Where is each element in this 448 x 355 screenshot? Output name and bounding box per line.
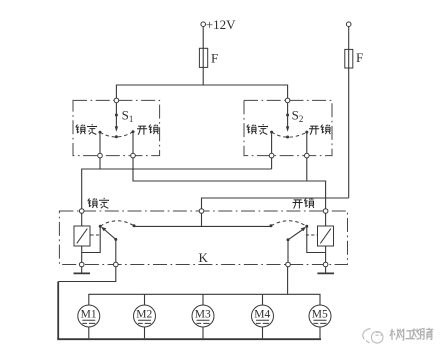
relay K1 moving arm with arrow (105, 230, 116, 239)
node K top terminal unlock coil (323, 209, 328, 214)
contact dot unlock (S1) (132, 130, 135, 133)
svg-text:M2: M2 (136, 309, 152, 321)
wire S2 unlock contact down (306, 134, 308, 154)
motor M2 (134, 305, 156, 338)
wire unlock-side motor feed to top bus (287, 267, 289, 295)
svg-text:S1: S1 (122, 108, 134, 125)
node S2 bottom terminal right (305, 153, 310, 158)
relay K2 travel arc (dashed) (271, 221, 307, 227)
mechanical link K1 (dashed) (91, 234, 102, 236)
node S1 bottom terminal left (98, 153, 103, 158)
wire K2 pole to coil return (307, 227, 326, 253)
wire S1 unlock contact down (132, 133, 134, 153)
switch S1 actuator arrow (115, 116, 117, 127)
label unlock (S1) (137, 125, 158, 135)
label lock (S1) (76, 124, 97, 135)
wire line A: S1 lock + S2 lock contacts to lock relay coil (82, 158, 272, 209)
wire M2 top stub (144, 294, 146, 305)
motor M3 (192, 305, 214, 338)
svg-text:F: F (356, 50, 363, 65)
wire top motor bus (89, 294, 320, 305)
relay K2 fixed contact dot (270, 224, 273, 227)
relay K1 coil (lock) (81, 213, 83, 226)
relay box K (dash-dot border) (59, 211, 347, 265)
wire K1 arm to bottom terminal (115, 240, 117, 262)
relay K2 moving arm with arrow (288, 230, 302, 240)
ground (right coil) (325, 267, 327, 273)
node K top terminal lock coil (79, 209, 84, 214)
wire relay contact bus (134, 225, 271, 227)
motor M1 (78, 305, 100, 338)
wire supply rail to switch boxes (116, 85, 287, 100)
wire S2 terminal to pivot (287, 103, 289, 114)
ground (left coil) (81, 267, 83, 273)
wire S2 lock contact down (271, 134, 273, 154)
svg-text:+12V: +12V (206, 17, 236, 32)
relay K2 coil (unlock) (325, 213, 327, 226)
contact dot lock (S2) (270, 131, 273, 134)
wire M4 top stub (262, 294, 264, 305)
node S2 top terminal (285, 98, 290, 103)
watermark text (ji gong jiao yu) (390, 328, 433, 340)
wire contact bus terminal down (201, 213, 203, 226)
svg-text:K: K (199, 250, 209, 265)
switch S1 common dot (115, 135, 118, 138)
node K bottom terminal arm1 (114, 262, 119, 267)
node battery terminal 2 (346, 22, 351, 27)
switch box S2 (dash-dot border) (244, 100, 332, 155)
wire K1 pole to coil return (82, 227, 101, 253)
contact dot lock (S1) (99, 131, 102, 134)
wire line C: fuse F2 to relay contact bus terminal (202, 198, 349, 209)
wire fuse F1 to supply rail (202, 67, 204, 85)
svg-text:M5: M5 (312, 309, 328, 321)
wire line B: S1 unlock + S2 unlock contacts to unlock relay coil (133, 158, 326, 209)
node K top terminal contact bus (199, 209, 204, 214)
switch S2 travel arc (dashed) (272, 132, 307, 137)
fuse F2 (345, 49, 353, 68)
wire S1 terminal to pivot (115, 103, 117, 114)
svg-text:M4: M4 (254, 309, 270, 321)
wire fuse F2 down to line C (348, 68, 350, 198)
relay K1 travel arc (dashed) (100, 221, 134, 226)
node K bottom terminal arm2 (286, 262, 291, 267)
label unlock (relay input) (293, 198, 314, 208)
switch S1 pivot dot (115, 114, 118, 117)
label lock (relay input) (88, 198, 109, 209)
node S1 top terminal (114, 98, 119, 103)
label lock (S2) (247, 124, 268, 135)
svg-text:F: F (211, 51, 218, 66)
wire lock-side motor feed (left) (58, 267, 116, 282)
wire S1 lock contact down (99, 134, 101, 154)
label unlock (S2) (309, 125, 330, 135)
wire terminal 2 to fuse F2 (348, 27, 350, 50)
switch S1 travel arc (dashed) (100, 132, 133, 137)
contact dot unlock (S2) (305, 131, 308, 134)
node K bottom terminal coil1 (79, 262, 84, 267)
wire M3 top stub (202, 294, 204, 305)
relay K2 arm common dot (287, 238, 290, 241)
motor M5 (309, 305, 331, 338)
motor M4 (252, 305, 274, 338)
node +12V terminal (201, 22, 206, 27)
switch box S1 (dash-dot border) (73, 100, 160, 155)
node S1 bottom terminal right (131, 153, 136, 158)
relay K1 pole contact dot (99, 225, 102, 228)
relay K1 fixed contact dot (133, 224, 136, 227)
svg-text:M1: M1 (81, 309, 97, 321)
wire K2 arm to bottom terminal (287, 241, 289, 262)
wire from +12V terminal to fuse F1 (202, 27, 204, 49)
node S2 bottom terminal left (269, 153, 274, 158)
relay K1 arm common dot (114, 238, 117, 241)
switch S2 pivot dot (286, 114, 289, 117)
relay K2 pole contact dot (305, 225, 308, 228)
fuse F1 (199, 48, 207, 67)
switch S2 actuator arrow (287, 116, 289, 127)
watermark logo (363, 329, 383, 344)
svg-text:S2: S2 (292, 108, 304, 125)
node K bottom terminal coil2 (323, 262, 328, 267)
mechanical link K2 (dashed) (306, 234, 317, 236)
wire bottom motor bus (heavy) (57, 338, 321, 340)
switch S2 common dot (286, 136, 289, 139)
svg-text:M3: M3 (195, 309, 211, 321)
